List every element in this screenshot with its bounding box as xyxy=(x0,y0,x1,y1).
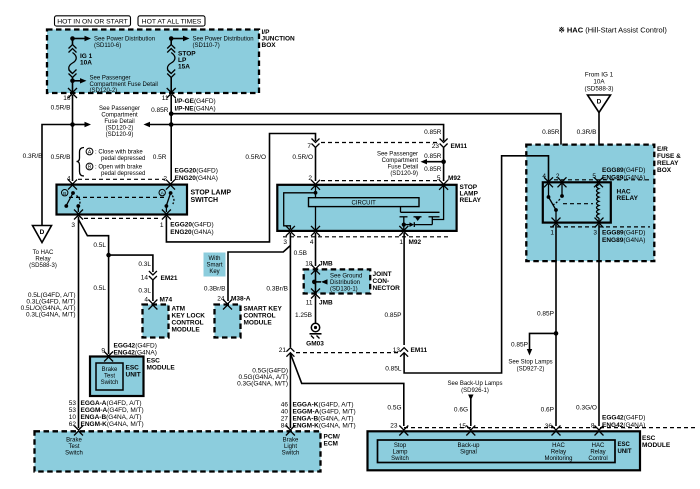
svg-text:7: 7 xyxy=(307,143,311,150)
svg-text:Test: Test xyxy=(104,374,115,380)
svg-text:Compartment: Compartment xyxy=(101,113,138,119)
tag With Smart Key xyxy=(204,253,226,277)
connector JMB pin 11 xyxy=(295,289,333,324)
svg-text:Relay: Relay xyxy=(590,450,605,456)
svg-text:(SD120-9): (SD120-9) xyxy=(390,171,418,177)
svg-text:0.85P: 0.85P xyxy=(511,342,528,349)
wire 0.85P/0.6P from HAC relay pin 1 to ESC pin 36 xyxy=(537,225,556,427)
svg-text:Control: Control xyxy=(588,456,607,462)
svg-text:HOT IN ON OR START: HOT IN ON OR START xyxy=(57,18,128,25)
svg-text:Brake: Brake xyxy=(283,438,299,444)
stop lamp relay xyxy=(277,180,481,231)
wire 0.85P from relay M92 pin 1 to EM11 pin 13 xyxy=(385,233,405,345)
wire 0.85R / 0.5R from pin 11 down to stop lamp switch pin 2 xyxy=(151,95,171,181)
svg-text:Fuse Detail: Fuse Detail xyxy=(388,165,418,171)
svg-text:4: 4 xyxy=(310,239,314,246)
svg-text:16: 16 xyxy=(63,95,71,102)
svg-text:SMART KEY: SMART KEY xyxy=(244,306,283,313)
wire 0.5G branch to ESC pin 23 xyxy=(290,354,403,427)
svg-text:RELAY: RELAY xyxy=(657,160,679,167)
svg-text:B: B xyxy=(63,191,66,197)
dashed wire pin 21 to EM11 pin 13 xyxy=(296,352,398,354)
svg-text:With: With xyxy=(209,256,221,262)
svg-text:See Passenger: See Passenger xyxy=(377,152,418,158)
svg-text:Switch: Switch xyxy=(282,451,300,457)
wire 0.3G/O from HAC relay pin 3 to ESC pin 8 xyxy=(576,225,599,427)
svg-text:0.5R/B: 0.5R/B xyxy=(51,105,71,112)
svg-text:JMB: JMB xyxy=(319,261,333,268)
svg-text:0.85L: 0.85L xyxy=(385,366,402,373)
note: see passenger compartment fuse detail xyxy=(99,106,140,138)
svg-text:ENGA-B(G4NA, A/T): ENGA-B(G4NA, A/T) xyxy=(293,416,354,423)
svg-text:0.3L: 0.3L xyxy=(138,288,151,295)
svg-text:See Back-Up Lamps: See Back-Up Lamps xyxy=(447,381,502,387)
wire 0.85R branch to stop lamp relay pin 5 xyxy=(171,125,443,142)
svg-text:ENG42(G4NA): ENG42(G4NA) xyxy=(114,350,157,357)
svg-text:MODULE: MODULE xyxy=(642,442,671,449)
triangle D to HAC relay xyxy=(29,226,57,270)
relay internal circuit box xyxy=(309,198,420,207)
svg-text:Switch: Switch xyxy=(101,380,119,386)
svg-text:53: 53 xyxy=(69,407,77,414)
connector EM11 pin 23 xyxy=(432,139,468,182)
svg-text:RELAY: RELAY xyxy=(617,195,639,202)
note: see passenger compartment fuse detail SD120-9 xyxy=(377,152,446,178)
svg-text:(SD588-3): (SD588-3) xyxy=(584,86,613,93)
wire 0.3R/B to HAC relay reference triangle xyxy=(23,125,73,226)
svg-text:To HAC: To HAC xyxy=(33,250,54,256)
svg-text:EGG42(G4FD): EGG42(G4FD) xyxy=(602,415,645,422)
svg-text:Distribution: Distribution xyxy=(330,280,360,286)
svg-text:ENG20(G4NA): ENG20(G4NA) xyxy=(175,175,218,182)
svg-text:(SD120-9): (SD120-9) xyxy=(106,132,134,138)
svg-text:JOINT: JOINT xyxy=(373,271,392,278)
svg-text:M38-A: M38-A xyxy=(231,296,251,303)
svg-text:24: 24 xyxy=(217,296,225,303)
wire 0.85L from EM11 pin 13 to HAC relay pin 4 xyxy=(385,156,548,373)
svg-text:23: 23 xyxy=(390,423,398,430)
wire 0.3Br/B from relay pin 3 to PCM pin 21 xyxy=(266,233,290,347)
svg-text:1: 1 xyxy=(160,222,164,229)
svg-text:MODULE: MODULE xyxy=(147,365,176,372)
svg-text:0.85P: 0.85P xyxy=(537,311,554,318)
connector pin 16 (I/P junction box) xyxy=(63,88,77,102)
stop lamp switch xyxy=(57,180,232,215)
svg-text:53: 53 xyxy=(69,400,77,407)
dashed connector line M92/EM11 top xyxy=(321,142,437,144)
svg-text:0.3G(G4NA, M/T): 0.3G(G4NA, M/T) xyxy=(237,381,288,388)
node: power feed to IG1 fuse xyxy=(70,36,155,49)
svg-text:Smart: Smart xyxy=(206,263,222,269)
svg-text:10: 10 xyxy=(69,414,77,421)
stop lamp switch connector EGG20/ENG20 (top) xyxy=(67,167,218,182)
svg-text:KEY LOCK: KEY LOCK xyxy=(172,313,206,320)
svg-text:M92: M92 xyxy=(448,175,461,182)
svg-text:EGG20(G4FD): EGG20(G4FD) xyxy=(170,222,213,229)
connector pin 11 (I/P junction box) xyxy=(162,88,216,113)
svg-text:Signal: Signal xyxy=(460,450,477,456)
svg-text:CON-: CON- xyxy=(373,278,390,285)
svg-text:0.3Br/B: 0.3Br/B xyxy=(266,286,288,293)
svg-text:10A: 10A xyxy=(593,79,605,86)
svg-text:15: 15 xyxy=(459,423,467,430)
relay bottom connectors pins 3,4 and M92 pin 1 xyxy=(283,226,450,246)
svg-text:Switch: Switch xyxy=(65,451,83,457)
node A: junction on 0.85R wire feeding HAC relay branch xyxy=(169,111,174,116)
label HOT AT ALL TIMES xyxy=(138,16,205,26)
svg-text:ECM: ECM xyxy=(324,441,338,448)
svg-text:SWITCH: SWITCH xyxy=(191,197,219,204)
svg-text:27: 27 xyxy=(281,416,289,423)
svg-text:9: 9 xyxy=(101,348,105,355)
svg-text:0.5G: 0.5G xyxy=(387,405,401,412)
svg-text:0.3L(G4NA, M/T): 0.3L(G4NA, M/T) xyxy=(26,312,75,319)
svg-text:ENGA-B(G4NA, A/T): ENGA-B(G4NA, A/T) xyxy=(81,414,142,421)
svg-text:Relay: Relay xyxy=(551,450,566,456)
svg-text:11: 11 xyxy=(306,300,313,307)
arrow to fuse detail note (right wire) xyxy=(144,122,172,127)
svg-text:D: D xyxy=(597,99,602,106)
svg-text:0.85R: 0.85R xyxy=(542,129,560,136)
svg-text:CONTROL: CONTROL xyxy=(172,320,204,327)
svg-text:See Power Distribution: See Power Distribution xyxy=(94,37,155,43)
connector ESC pin 9 xyxy=(101,343,156,362)
svg-text:0.5R: 0.5R xyxy=(153,154,167,161)
svg-text:(SD927-2): (SD927-2) xyxy=(517,367,545,373)
svg-text:14: 14 xyxy=(141,275,149,282)
I/P junction box xyxy=(47,29,295,93)
svg-text:M92: M92 xyxy=(409,239,422,246)
svg-text:FUSE &: FUSE & xyxy=(657,153,681,160)
svg-text:NECTOR: NECTOR xyxy=(373,285,401,292)
svg-text:1: 1 xyxy=(550,230,554,237)
svg-text:ESC: ESC xyxy=(126,365,140,372)
svg-text:15A: 15A xyxy=(178,64,190,71)
svg-text:Key: Key xyxy=(209,269,219,275)
svg-text:Relay: Relay xyxy=(35,257,50,263)
wire 0.5B from relay pin 4 to JMB xyxy=(294,233,316,266)
svg-text:CIRCUIT: CIRCUIT xyxy=(352,201,377,207)
svg-text:0.3R/B: 0.3R/B xyxy=(23,153,43,160)
svg-text:UNIT: UNIT xyxy=(618,449,632,455)
svg-text:ENG20(G4NA): ENG20(G4NA) xyxy=(170,229,213,236)
svg-text:Fuse Detail: Fuse Detail xyxy=(104,119,134,125)
svg-text:(SD110-7): (SD110-7) xyxy=(193,43,220,49)
node: power feed to STOP LP fuse xyxy=(169,36,254,49)
PCM/ECM module box xyxy=(35,431,340,471)
relay internal wiring pin4 xyxy=(315,207,317,230)
svg-text:MODULE: MODULE xyxy=(244,320,273,327)
wire to PCM brake light switch pin xyxy=(237,354,290,429)
ATM key lock control module xyxy=(143,305,206,338)
svg-text:3: 3 xyxy=(283,239,287,246)
svg-text:HOT AT ALL TIMES: HOT AT ALL TIMES xyxy=(142,18,202,25)
ESC module box xyxy=(368,431,671,470)
svg-text:0.3L: 0.3L xyxy=(138,261,151,268)
svg-text:0.85R: 0.85R xyxy=(151,107,169,114)
svg-text:ESC: ESC xyxy=(642,435,656,442)
svg-text:EM11: EM11 xyxy=(451,143,468,150)
legend: brake pedal switch states xyxy=(77,148,146,178)
wire 0.5R/B from pin 16 to stop lamp switch pin 4 xyxy=(51,95,73,181)
relay internal transistor driver xyxy=(400,186,444,230)
svg-text:pedal depressed: pedal depressed xyxy=(101,171,145,177)
svg-text:Light: Light xyxy=(284,444,297,450)
svg-text:ENG89(G4NA): ENG89(G4NA) xyxy=(602,175,645,182)
svg-text:Monitoring: Monitoring xyxy=(544,456,572,462)
svg-text:Brake: Brake xyxy=(66,438,82,444)
svg-text:EGG42(G4FD): EGG42(G4FD) xyxy=(114,343,157,350)
joint connector (ground distribution) xyxy=(304,269,400,293)
svg-text:Stop: Stop xyxy=(394,443,407,449)
connector pin 21 xyxy=(279,347,295,357)
svg-text:pedal depressed: pedal depressed xyxy=(101,156,145,162)
PCM/ECM pins 46/40/27/84 (brake light switch) xyxy=(281,402,356,436)
svg-text:EGG20(G4FD): EGG20(G4FD) xyxy=(175,167,218,174)
svg-text:See Passenger: See Passenger xyxy=(99,106,140,112)
svg-text:I/P-NE(G4NA): I/P-NE(G4NA) xyxy=(175,106,216,113)
connector JMB pin 18 xyxy=(305,261,333,275)
svg-text:0.85P: 0.85P xyxy=(385,312,402,319)
wire 0.3Br/B to smart key control module xyxy=(204,246,291,302)
arrow to fuse detail note (left wire) xyxy=(70,122,91,127)
svg-text:: Close with brake: : Close with brake xyxy=(95,150,143,156)
svg-text:13: 13 xyxy=(393,347,401,354)
svg-text:ESC: ESC xyxy=(618,442,631,448)
svg-text:Compartment Fuse Detail: Compartment Fuse Detail xyxy=(90,82,158,88)
svg-text:EGGM-A(G4FD, M/T): EGGM-A(G4FD, M/T) xyxy=(293,409,356,416)
svg-text:1.25B: 1.25B xyxy=(295,312,312,319)
svg-text:0.5R/O: 0.5R/O xyxy=(292,154,313,161)
svg-text:Switch: Switch xyxy=(391,456,409,462)
svg-text:ENGM-K(G4NA, M/T): ENGM-K(G4NA, M/T) xyxy=(293,423,356,430)
HAC relay xyxy=(543,177,639,222)
svg-text:STOP LAMP: STOP LAMP xyxy=(191,190,232,197)
svg-text:※ HAC (Hill-Start Assist Contr: ※ HAC (Hill-Start Assist Control) xyxy=(559,26,668,35)
svg-text:From IG 1: From IG 1 xyxy=(585,72,614,79)
stop lamp switch connector EGG20/ENG20 (bottom) xyxy=(71,210,213,237)
ESC module connector EGG42/ENG42 xyxy=(390,415,697,436)
svg-text:0.85R: 0.85R xyxy=(424,129,442,136)
svg-text:3: 3 xyxy=(593,230,597,237)
svg-text:3: 3 xyxy=(71,222,75,229)
svg-text:M74: M74 xyxy=(160,297,173,304)
svg-text:0.5L: 0.5L xyxy=(93,242,106,249)
svg-text:(SD120-2): (SD120-2) xyxy=(90,88,118,94)
HAC relay connector EGG89/ENG89 (top) xyxy=(542,167,650,182)
wire 0.3R/B from triangle D to HAC relay pin 5 xyxy=(577,112,599,181)
svg-text:Back-up: Back-up xyxy=(457,443,480,449)
node: stub to see stop lamps xyxy=(508,331,558,372)
svg-text:21: 21 xyxy=(279,347,287,354)
svg-text:ATM: ATM xyxy=(172,306,186,313)
wire 0.5L from switch pin 3 xyxy=(21,217,111,429)
svg-text:23: 23 xyxy=(432,143,440,150)
connector M92 pin 5 / relay pin 2 xyxy=(308,175,461,182)
connector M74 pin 4 xyxy=(144,297,172,310)
svg-text:0.3G/O: 0.3G/O xyxy=(576,405,597,412)
ground GM03 xyxy=(306,323,324,347)
connector pin 7 (stop lamp relay, in-line) xyxy=(307,139,319,182)
svg-text:Compartment: Compartment xyxy=(382,158,419,164)
svg-text:: Open with brake: : Open with brake xyxy=(95,165,143,171)
svg-text:ESC: ESC xyxy=(147,358,161,365)
note From IG 1 10A xyxy=(584,72,613,93)
fuse STOP LP 15A xyxy=(167,39,196,94)
svg-text:EM21: EM21 xyxy=(161,275,178,282)
svg-text:Test: Test xyxy=(68,444,79,450)
svg-text:EGGA-A(G4FD, A/T): EGGA-A(G4FD, A/T) xyxy=(81,400,142,407)
triangle D from IG1 xyxy=(588,95,611,113)
label HOT IN ON OR START xyxy=(55,16,131,26)
svg-text:(SD120-2): (SD120-2) xyxy=(106,126,134,132)
ESC unit (brake test switch) xyxy=(90,357,175,397)
svg-text:CONTROL: CONTROL xyxy=(244,313,276,320)
svg-text:0.5R/B: 0.5R/B xyxy=(51,154,71,161)
svg-text:BOX: BOX xyxy=(657,167,672,174)
svg-text:EGGM-A(G4FD, M/T): EGGM-A(G4FD, M/T) xyxy=(81,407,144,414)
svg-text:See Power Distribution: See Power Distribution xyxy=(193,37,254,43)
svg-text:See Passenger: See Passenger xyxy=(90,76,131,82)
svg-text:(SD110-6): (SD110-6) xyxy=(94,43,121,49)
svg-text:0.6P: 0.6P xyxy=(541,407,554,414)
svg-text:0.3Br/B: 0.3Br/B xyxy=(204,286,226,293)
svg-text:ENG89(G4NA): ENG89(G4NA) xyxy=(602,237,645,244)
svg-text:0.5B: 0.5B xyxy=(294,250,307,257)
fuse IG 1 10A xyxy=(69,39,93,78)
svg-text:EGG89(G4FD): EGG89(G4FD) xyxy=(602,167,645,174)
svg-text:ENG42(G4NA): ENG42(G4NA) xyxy=(602,422,645,429)
svg-text:HAC: HAC xyxy=(552,443,565,449)
svg-text:HAC: HAC xyxy=(592,443,605,449)
svg-text:D: D xyxy=(40,229,45,236)
svg-text:EM11: EM11 xyxy=(411,347,428,354)
node B: junction on 0.85R wire feeding stop lamp relay branch xyxy=(169,122,174,127)
svg-text:18: 18 xyxy=(305,261,313,268)
svg-text:JMB: JMB xyxy=(319,300,333,307)
svg-text:GM03: GM03 xyxy=(306,341,324,348)
connector EM11 pin 13 xyxy=(393,347,428,357)
svg-text:4: 4 xyxy=(144,297,148,304)
wire 0.3L branch to ATM key lock module xyxy=(109,255,153,272)
svg-text:0.3R/B: 0.3R/B xyxy=(577,129,597,136)
svg-text:Lamp: Lamp xyxy=(392,450,408,456)
connector M38-A pin 24 xyxy=(217,296,251,310)
note: see back-up lamps feed to ESC pin 15 xyxy=(447,381,502,426)
svg-text:(SD588-3): (SD588-3) xyxy=(29,263,57,269)
svg-text:E/R: E/R xyxy=(657,146,668,153)
svg-text:MODULE: MODULE xyxy=(172,327,201,334)
svg-text:0.5R/O: 0.5R/O xyxy=(245,154,266,161)
wire 0.85R branch to HAC relay pin 2 xyxy=(171,114,561,181)
relay internal wiring pin2/pin3 xyxy=(284,186,318,229)
svg-text:40: 40 xyxy=(281,409,289,416)
smart key control module xyxy=(215,305,283,338)
connector EM21 pin 14 xyxy=(138,271,178,301)
svg-text:0.6G: 0.6G xyxy=(454,407,468,414)
svg-text:(SD130-1): (SD130-1) xyxy=(330,287,358,293)
svg-text:0.85R: 0.85R xyxy=(424,153,442,160)
svg-text:Brake: Brake xyxy=(102,367,118,373)
svg-text:0.85R: 0.85R xyxy=(424,166,442,173)
svg-text:See Ground: See Ground xyxy=(330,274,362,280)
svg-text:(SD926-1): (SD926-1) xyxy=(461,388,489,394)
PCM/ECM pins 53/53/10/62 (brake test switch input) xyxy=(69,400,144,436)
E/R fuse and relay box xyxy=(526,145,681,262)
node: IG1 fuse output to passenger fuse detail xyxy=(70,76,158,95)
svg-text:10A: 10A xyxy=(80,60,92,67)
svg-text:0.5L: 0.5L xyxy=(93,285,106,292)
svg-text:RELAY: RELAY xyxy=(460,197,482,204)
svg-text:36: 36 xyxy=(545,423,553,430)
svg-text:11: 11 xyxy=(162,95,169,102)
svg-text:EGG89(G4FD): EGG89(G4FD) xyxy=(602,230,645,237)
svg-text:1: 1 xyxy=(399,239,403,246)
svg-text:I/P-GE(G4FD): I/P-GE(G4FD) xyxy=(175,98,216,105)
svg-text:BOX: BOX xyxy=(262,42,277,49)
HAC relay connector EGG89/ENG89 (bottom) xyxy=(550,218,650,244)
svg-text:PCM/: PCM/ xyxy=(324,434,340,441)
svg-text:46: 46 xyxy=(281,402,289,409)
svg-text:See Stop Lamps: See Stop Lamps xyxy=(508,360,552,366)
svg-text:UNIT: UNIT xyxy=(126,372,141,379)
wire 0.5R/O from switch pin 1 to stop lamp relay pin 7 xyxy=(166,134,315,242)
svg-text:ENGM-K(G4NA, M/T): ENGM-K(G4NA, M/T) xyxy=(81,421,144,428)
svg-text:EGGA-K(G4FD, A/T): EGGA-K(G4FD, A/T) xyxy=(293,402,354,409)
